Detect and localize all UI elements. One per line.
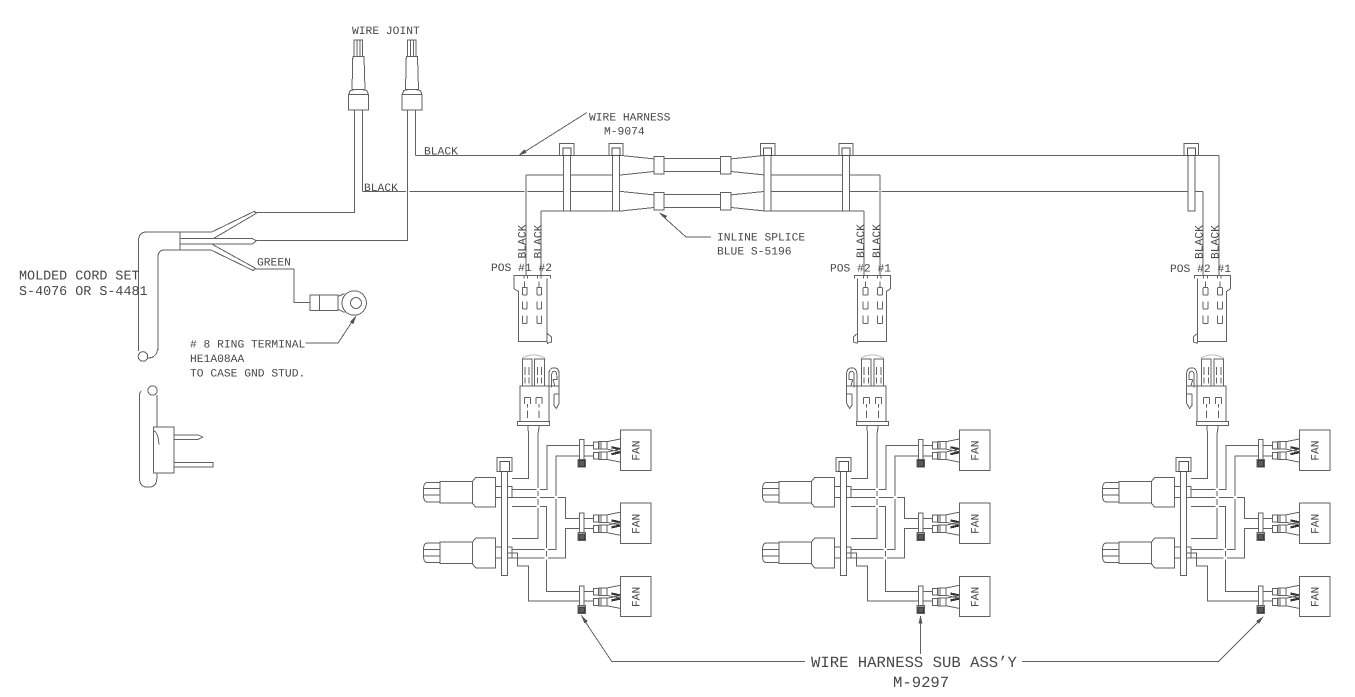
wire network asm1 (424, 426, 651, 617)
wire: joint1 left strand down to cord conductor 1 (255, 110, 355, 213)
svg-text:TO CASE GND STUD.: TO CASE GND STUD. (190, 369, 305, 381)
cable tie T3 (761, 144, 775, 212)
svg-text:BLACK: BLACK (424, 147, 458, 159)
pos connector asm3 (mirrored) (1193, 275, 1230, 343)
ring terminal outer ring (342, 291, 366, 315)
leader left to asm1 (584, 619, 806, 662)
svg-text:POS #2 #1: POS #2 #1 (1170, 264, 1231, 276)
pos connector asm1 (514, 275, 551, 343)
wire network asm2 (763, 426, 990, 617)
ring terminal inner hole (351, 298, 362, 309)
leader to splice (662, 215, 712, 237)
svg-text:WIRE HARNESS SUB ASS’Y: WIRE HARNESS SUB ASS’Y (811, 654, 1018, 672)
wire: drop to asm3 pos connector pin2 (1202, 192, 1204, 277)
cable tie T1 (560, 144, 574, 212)
leader to harness (522, 113, 587, 154)
harness line 2 (y=175) (526, 174, 880, 176)
leader right to asm3 (1022, 620, 1261, 662)
harness line 3 (BLACK, y=191.5) (363, 191, 1204, 193)
ring terminal barrel (310, 295, 338, 310)
svg-text:WIRE HARNESS: WIRE HARNESS (589, 113, 671, 125)
pos connector asm2 (mirrored) (853, 275, 890, 343)
svg-text:POS #1 #2: POS #1 #2 (491, 263, 552, 275)
harness line 1 (BLACK, y=155.5) (416, 155, 1219, 157)
wire: drop to asm3 pos connector pin1 (1218, 156, 1220, 277)
svg-text:BLACK: BLACK (1194, 225, 1206, 259)
inline splice top (between lines 1 and 2) (622, 156, 765, 175)
svg-text:HE1A08AA: HE1A08AA (190, 354, 244, 366)
wire: joint2 right strand down, becomes harness line 1 start (415, 110, 417, 156)
cord break circle bottom (148, 386, 157, 395)
cord lower piece left line (139, 391, 141, 479)
cable tie T2 (609, 144, 623, 212)
cord break circle top (138, 352, 148, 362)
ring terminal tangents (338, 294, 345, 313)
inline splice bottom (between lines 3 and 4) (622, 192, 765, 211)
wire: joint2 left strand down to cord conductor 2 (256, 110, 408, 241)
latch connector asm1 (517, 355, 559, 426)
svg-text:BLACK: BLACK (364, 183, 398, 195)
plug prong upper (174, 435, 203, 440)
wire: drop to asm2 pos connector pin2 (879, 175, 881, 276)
molded cord set (138, 232, 212, 487)
svg-text:WIRE JOINT: WIRE JOINT (352, 26, 420, 38)
svg-text:MOLDED CORD SET: MOLDED CORD SET (19, 270, 140, 285)
wire: green lead to ring terminal (254, 269, 310, 303)
plug strain relief curve (153, 431, 159, 445)
cord jacket end divider (179, 232, 181, 250)
cord bend outer edge (138, 232, 212, 351)
svg-text:# 8 RING TERMINAL: # 8 RING TERMINAL (190, 340, 305, 352)
cord break squiggle top (148, 349, 158, 358)
plug prong lower (174, 462, 213, 467)
molded plug (153, 427, 213, 473)
svg-text:POS #2 #1: POS #2 #1 (830, 264, 891, 276)
ring terminal (310, 291, 366, 315)
svg-text:GREEN: GREEN (257, 258, 291, 270)
harness line 4 (y=210.8) (541, 210, 864, 212)
latch connector asm3 (mirrored) (1187, 355, 1229, 426)
wire: drop to asm1 pos connector pin1 (525, 175, 527, 276)
wire joint connector 2 (402, 40, 422, 110)
cable tie T5 (asm3 drop) (1184, 144, 1198, 212)
wire: drop to asm1 pos connector pin2 (540, 211, 542, 276)
svg-text:INLINE SPLICE: INLINE SPLICE (717, 233, 805, 245)
wire: drop to asm2 pos connector pin1 (863, 211, 865, 276)
wire: joint1 right strand down, becomes harness line 3 start (362, 110, 364, 192)
wire joint connector 1 (349, 40, 369, 110)
conductor band top (to joint 1) (212, 211, 256, 238)
svg-text:BLACK: BLACK (856, 224, 868, 258)
cable tie T4 (839, 144, 853, 212)
cord bend inner edge (158, 250, 211, 351)
svg-text:M-9074: M-9074 (604, 127, 645, 139)
cord lower piece right line (156, 395, 158, 479)
svg-text:BLACK: BLACK (1210, 225, 1222, 259)
leader to ring terminal (306, 317, 356, 343)
svg-text:S-4076 OR S-4481: S-4076 OR S-4481 (19, 285, 148, 300)
svg-text:BLACK: BLACK (534, 224, 546, 258)
conductor band middle (to joint 2) (180, 238, 256, 244)
svg-text:BLACK: BLACK (872, 224, 884, 258)
svg-text:BLACK: BLACK (518, 224, 530, 258)
cord conductors (180, 211, 310, 303)
conductor band green (211, 244, 255, 270)
svg-text:BLUE S-5196: BLUE S-5196 (717, 247, 792, 259)
svg-text:M-9297: M-9297 (893, 674, 949, 692)
leader middle to asm2 (920, 620, 922, 654)
cord lower rounded end (140, 478, 157, 487)
latch connector asm2 (mirrored) (847, 355, 889, 426)
plug body (153, 427, 174, 473)
wire network asm3 (1103, 426, 1330, 617)
